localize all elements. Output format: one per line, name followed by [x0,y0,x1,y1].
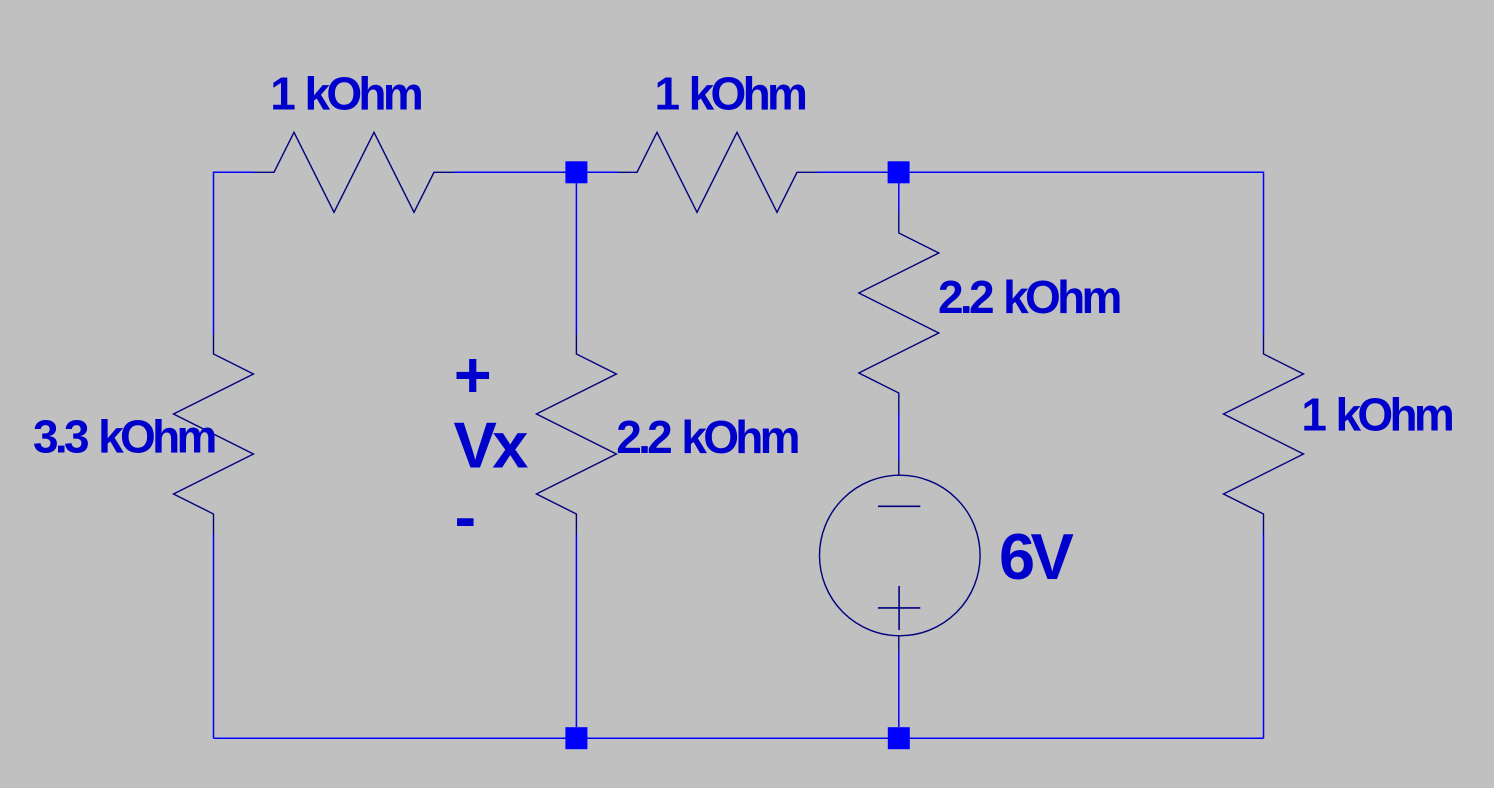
wire right lower [1263,534,1265,738]
resistor R1 1 kOhm (top left, horizontal) [254,132,454,212]
svg-text:1 kOhm: 1 kOhm [270,68,422,120]
wire R5 to source V1 [898,413,900,460]
wire node A down to R4 [575,183,577,334]
wire node B down to R5 [898,183,900,213]
resistor R4 2.2 kOhm (middle, vertical) [536,334,616,534]
node B junction square [888,161,910,183]
svg-text:2.2 kOhm: 2.2 kOhm [938,271,1120,323]
wire node B to top-right corner down to R6 [910,172,1264,334]
voltage source V1 lead bottom [898,636,900,651]
wire R1 to node A [454,171,566,173]
wire top-left: left corner to R1 [214,172,255,334]
svg-text:2.2 kOhm: 2.2 kOhm [616,411,798,463]
wire R2 to node B [817,171,888,173]
voltage source V1 circle [820,475,981,636]
resistor R6 1 kOhm (right, vertical) [1224,334,1304,534]
wire V1 to bottom node D [898,651,900,727]
node C junction square [565,727,587,749]
resistor R2 1 kOhm (top middle, horizontal) [618,132,817,212]
svg-text:Vx: Vx [454,409,529,482]
wire node A to R2 [588,171,619,173]
node A junction square [565,161,587,183]
node D junction square [888,727,910,749]
resistor R5 2.2 kOhm (right-middle, vertical) [859,213,939,413]
voltage source V1 lead top [898,460,900,475]
svg-text:3.3 kOhm: 3.3 kOhm [33,410,215,462]
svg-text:+: + [454,338,490,411]
svg-text:6V: 6V [999,520,1074,593]
svg-text:-: - [455,480,475,553]
voltage source V1 plus mark [878,586,920,630]
resistor R3 3.3 kOhm (left, vertical) [174,334,254,534]
wire left lower [213,534,215,738]
voltage source V1 minus mark [878,505,920,507]
wire bottom rail [214,737,1264,739]
svg-text:1 kOhm: 1 kOhm [655,68,807,120]
wire R4 to bottom node C [575,534,577,727]
svg-text:1 kOhm: 1 kOhm [1301,389,1453,441]
